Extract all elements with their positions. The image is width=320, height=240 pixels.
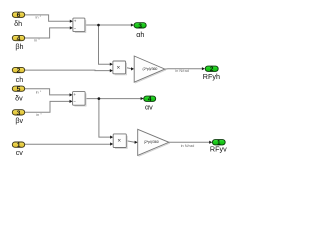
svg-text:βv: βv [15,116,23,125]
svg-text:RFyh: RFyh [203,72,220,81]
svg-text:in N/rad: in N/rad [181,143,195,148]
svg-text:in °: in ° [34,37,40,42]
svg-text:αh: αh [136,30,144,39]
svg-text:5: 5 [17,86,21,93]
svg-text:δh: δh [14,19,22,28]
svg-text:ch: ch [16,75,24,84]
svg-text:cv: cv [16,148,24,157]
svg-text:αv: αv [145,102,153,111]
svg-text:δv: δv [15,94,23,103]
svg-text:in °: in ° [36,15,42,20]
svg-text:2: 2 [17,68,21,75]
svg-text:(2*pi)/360: (2*pi)/360 [144,140,159,144]
svg-text:βh: βh [15,42,23,51]
svg-text:3: 3 [138,23,142,30]
svg-text:RFyv: RFyv [210,144,227,153]
svg-text:in N/rad: in N/rad [175,68,189,73]
svg-text:×: × [117,137,121,144]
svg-text:(2*pi)/360: (2*pi)/360 [142,67,157,71]
svg-text:×: × [117,65,121,72]
svg-text:in °: in ° [36,89,42,94]
svg-text:in °: in ° [36,112,42,117]
